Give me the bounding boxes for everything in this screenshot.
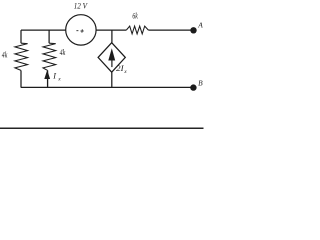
svg-text:12 V: 12 V [74,1,89,11]
V1 plus sign [80,29,83,32]
voltage source V1 12V [66,15,96,45]
wire diamond top stem [111,30,113,43]
wire diamond bottom stem [111,72,113,87]
current arrow Ix shaft [47,79,49,88]
wire left resistor bottom lead [20,70,22,87]
resistor R3 6k zigzag [126,26,148,34]
separator rule [0,127,204,129]
dependent source arrow shaft [111,58,113,68]
svg-text:4k: 4k [60,48,66,57]
wire middle resistor bottom lead [47,70,49,87]
wire top middle [96,29,126,31]
svg-text:x: x [123,69,127,75]
terminal node A dot [190,27,196,33]
svg-text:6k: 6k [132,11,138,20]
svg-text:A: A [197,20,203,29]
wire bottom [21,86,191,88]
wire middle resistor top lead [48,30,50,43]
dependent current source 2Ix diamond [98,43,125,72]
wire left resistor top lead [20,30,22,43]
svg-text:4k: 4k [2,51,8,60]
svg-text:x: x [57,77,61,83]
wire top left [21,29,66,31]
resistor R2 4k middle zigzag [43,43,56,70]
dependent source arrow head [108,48,115,60]
wire top right [148,29,190,31]
resistor R1 4k left zigzag [15,43,28,70]
current arrow Ix head [44,70,50,79]
svg-text:B: B [198,78,203,87]
terminal node B dot [190,84,196,90]
V1 minus sign [76,30,78,32]
